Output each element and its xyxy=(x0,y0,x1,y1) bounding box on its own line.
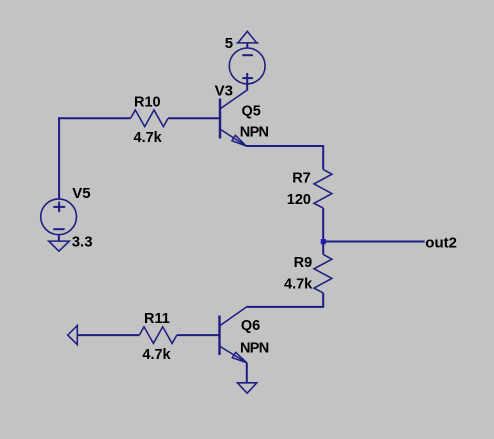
Q5 emitter diagonal xyxy=(221,130,247,147)
wire: R10 right lead to Q5 base xyxy=(168,117,219,119)
transistor Q6 (NPN) xyxy=(220,307,247,363)
wire: node to out2 label xyxy=(323,241,425,243)
ground symbol (V5) xyxy=(49,241,70,251)
Q6 emitter arrowhead xyxy=(232,352,247,363)
V3 minus sign xyxy=(242,54,253,56)
wire: corner to R10 left lead (Q5 base row) xyxy=(58,117,131,119)
svg-text:5: 5 xyxy=(225,35,233,52)
svg-text:Q5: Q5 xyxy=(242,103,261,119)
Q6 collector diagonal xyxy=(220,307,247,326)
Q5 collector diagonal xyxy=(221,90,248,109)
Q6 base bar xyxy=(218,316,220,356)
svg-text:R10: R10 xyxy=(134,95,161,111)
wire: port arrow to R11 left lead xyxy=(77,334,139,336)
V5 plus sign xyxy=(53,202,65,213)
svg-text:V3: V3 xyxy=(215,83,233,100)
svg-text:V5: V5 xyxy=(72,185,90,202)
svg-text:NPN: NPN xyxy=(240,340,269,356)
wire: node to R9 top lead xyxy=(322,242,324,255)
svg-text:NPN: NPN xyxy=(240,125,269,141)
wire: V5 top to Q5 base corner (vertical) xyxy=(58,117,60,199)
Q5 emitter arrowhead xyxy=(232,135,246,146)
V5 minus sign xyxy=(53,228,64,230)
wire: V5 bottom stem to ground xyxy=(58,235,60,242)
transistor Q5 (NPN) xyxy=(220,90,247,146)
resistor R10 xyxy=(131,110,169,127)
node junction (out2) xyxy=(321,239,326,244)
port arrow (left, Q6 base) xyxy=(68,326,78,345)
resistor R7 xyxy=(314,169,332,208)
svg-text:R9: R9 xyxy=(294,255,313,271)
svg-text:R11: R11 xyxy=(144,311,170,327)
wire: R7 bottom lead to node xyxy=(322,208,324,242)
wire: R11 right lead to Q6 base xyxy=(177,334,219,336)
voltage source V3 (circle) xyxy=(229,48,265,84)
resistor R9 xyxy=(314,254,332,293)
wire: Q5 emitter to R7 top corner xyxy=(246,146,323,169)
V3 plus sign xyxy=(242,73,253,84)
svg-text:3.3: 3.3 xyxy=(72,234,93,251)
wire: Q6 emitter stem to ground xyxy=(246,363,248,383)
ground symbol (Q6 emitter) xyxy=(237,383,256,393)
svg-text:4.7k: 4.7k xyxy=(142,347,171,363)
Q5 base bar xyxy=(219,99,221,139)
wire: V3 bottom stem to Q5 collector pin xyxy=(246,84,248,91)
svg-text:out2: out2 xyxy=(425,235,457,252)
wire: R9 bottom lead to corner and left to Q6 collector xyxy=(247,293,324,307)
power flag 5 (top) xyxy=(236,31,258,48)
svg-text:120: 120 xyxy=(287,192,311,208)
svg-text:R7: R7 xyxy=(292,170,311,186)
svg-text:4.7k: 4.7k xyxy=(134,130,163,146)
svg-text:Q6: Q6 xyxy=(241,318,260,334)
resistor R11 xyxy=(139,327,177,344)
voltage source V5 (circle) xyxy=(41,199,77,235)
Q6 emitter diagonal xyxy=(220,347,247,363)
svg-text:4.7k: 4.7k xyxy=(284,277,313,293)
